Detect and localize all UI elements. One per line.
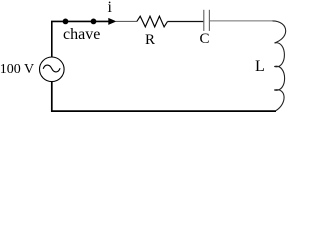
capacitor C right plate bbox=[208, 10, 210, 31]
label chave bbox=[63, 27, 100, 43]
AC source sine wave bbox=[43, 65, 60, 72]
wire left vertical upper bbox=[51, 21, 53, 57]
wire capacitor to inductor thin bbox=[210, 20, 273, 22]
label C bbox=[200, 32, 210, 47]
inductor L top corner arc bbox=[273, 21, 286, 43]
label i (current) bbox=[108, 0, 112, 16]
switch terminal dot 1 bbox=[63, 19, 69, 25]
wire resistor to capacitor bbox=[168, 21, 204, 23]
wire arrow to resistor thin bbox=[116, 20, 137, 22]
wire top horizontal thick (corner to arrow) bbox=[51, 20, 109, 22]
capacitor C left plate bbox=[203, 10, 205, 31]
wire bottom horizontal bbox=[51, 110, 276, 112]
label 100 V bbox=[0, 63, 34, 77]
inductor L loop 2 bbox=[274, 66, 284, 90]
inductor L bottom corner arc bbox=[274, 90, 284, 111]
inductor L loop 1 bbox=[274, 43, 284, 67]
switch terminal dot 2 bbox=[91, 19, 97, 25]
wire left vertical lower bbox=[51, 81, 53, 112]
label R bbox=[145, 33, 155, 48]
label L bbox=[255, 59, 265, 75]
current arrow i bbox=[108, 18, 116, 25]
AC source circle bbox=[40, 57, 65, 82]
resistor R zigzag bbox=[137, 16, 168, 27]
